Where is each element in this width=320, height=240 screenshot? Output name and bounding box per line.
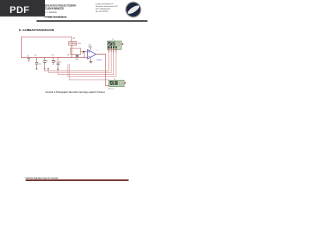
ground return bus N1 xyxy=(45,49,109,71)
svg-text:TBLOCK: TBLOCK xyxy=(108,88,115,90)
svg-text:10u: 10u xyxy=(39,63,42,65)
svg-text:C5: C5 xyxy=(60,61,62,63)
svg-text:PDF: PDF xyxy=(10,5,30,16)
pin 3 xyxy=(113,46,114,48)
pin stub right xyxy=(124,82,125,84)
wire box to bus xyxy=(71,45,73,57)
svg-text:RV1: RV1 xyxy=(75,59,78,61)
svg-text:Gambar 4.5 Rangkaian Skematik: Gambar 4.5 Rangkaian Skematik Catu Daya … xyxy=(45,90,105,94)
pin stubs xyxy=(109,49,116,52)
node input junction xyxy=(83,51,85,53)
regulator U3 box xyxy=(69,42,77,46)
node D xyxy=(47,68,49,70)
svg-text:C4: C4 xyxy=(52,55,54,57)
ground return bus N3 xyxy=(58,49,114,75)
svg-text:C1: C1 xyxy=(27,55,29,57)
svg-text:7805: 7805 xyxy=(69,43,76,45)
svg-text:D3 TEKNIK TELEKOMUNIKASI: D3 TEKNIK TELEKOMUNIKASI xyxy=(45,16,67,19)
header rule xyxy=(37,20,148,22)
footer rule xyxy=(26,179,129,181)
wire loop to op-amp input xyxy=(81,50,88,52)
capacitor C2 xyxy=(34,55,41,70)
wire op-amp output to J2 xyxy=(96,54,109,85)
node A xyxy=(36,68,38,70)
capacitor C3 xyxy=(42,57,48,69)
node VI flag xyxy=(122,43,123,45)
svg-text:3: 3 xyxy=(97,50,98,52)
connector J1 xyxy=(107,39,123,51)
wire bus tap to input xyxy=(83,51,85,57)
connector J2 xyxy=(108,78,126,90)
node B xyxy=(44,68,46,70)
PDF badge xyxy=(0,0,45,17)
wire mid bus xyxy=(22,56,88,58)
trimmer RV1 on bus xyxy=(75,55,78,61)
ground below op-amp xyxy=(89,62,92,64)
pin 4 xyxy=(115,46,116,48)
svg-text:E. GAMBAR RANGKAIAN: E. GAMBAR RANGKAIAN xyxy=(19,28,54,32)
svg-text:C6: C6 xyxy=(67,54,69,56)
node C xyxy=(57,68,59,70)
header right info text xyxy=(96,2,119,13)
svg-text:No. 44-21/IV/19: No. 44-21/IV/19 xyxy=(96,11,109,13)
wire feedback loop xyxy=(70,48,80,54)
capacitor C4 xyxy=(52,55,57,65)
ground return bus N2 xyxy=(48,49,111,73)
svg-text:U3: U3 xyxy=(73,38,75,40)
svg-text:JL. DI PANJAITAN: JL. DI PANJAITAN xyxy=(45,11,57,14)
wire rail to regulator box xyxy=(71,37,73,42)
capacitor C1 xyxy=(27,55,30,61)
ground return bus N5 xyxy=(70,64,109,80)
pin 2 xyxy=(111,46,112,48)
wire left drop xyxy=(21,37,23,57)
capacitor C5 xyxy=(57,57,62,70)
op-amp U1 xyxy=(88,45,102,62)
header institution text block xyxy=(45,4,77,20)
header logo xyxy=(125,2,141,18)
svg-text:7660: 7660 xyxy=(88,47,92,49)
pin 1 xyxy=(108,46,109,48)
svg-text:U1: U1 xyxy=(89,45,91,47)
svg-text:LM358: LM358 xyxy=(96,60,101,62)
ground return bus N4 xyxy=(68,49,116,77)
svg-text:C2: C2 xyxy=(34,55,36,57)
wire top rail xyxy=(22,36,72,38)
svg-text:TELKOM PURWOKERTO: TELKOM PURWOKERTO xyxy=(45,7,64,10)
